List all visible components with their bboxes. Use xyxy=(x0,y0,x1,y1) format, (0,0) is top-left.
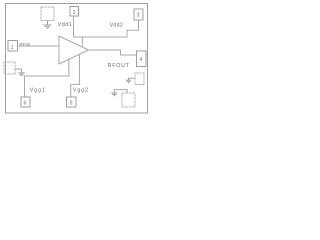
wire Vgg2 (amp bottom to pin5) xyxy=(71,54,80,97)
svg-text:3: 3 xyxy=(137,13,140,19)
capacitor C1 (top-left bypass square) xyxy=(41,7,54,21)
svg-text:5: 5 xyxy=(70,101,73,107)
op-amp U1 (amplifier triangle) xyxy=(59,36,89,64)
ground (left of C4) xyxy=(111,93,117,96)
wire pin2 to Vdd rail xyxy=(73,16,75,37)
svg-text:Vgg1: Vgg1 xyxy=(30,87,46,93)
wire Vgg1 (amp bottom to pin6) xyxy=(25,59,69,97)
pin box 1 xyxy=(8,41,18,52)
wire C3 to ground xyxy=(129,78,136,80)
die outline border xyxy=(6,4,148,114)
capacitor C2 (left-border square) xyxy=(4,62,15,74)
wire RFIN to amp xyxy=(18,45,60,47)
wire Vdd rail (pin3 down, left, down, left to pin2 wire) xyxy=(74,20,139,37)
pin box 3 xyxy=(134,9,143,20)
svg-text:4: 4 xyxy=(140,57,143,63)
ground (left of C3) xyxy=(126,80,132,83)
pin box 2 xyxy=(70,7,79,17)
wire stub rail to amp top edge xyxy=(81,37,83,47)
wire C2 to ground xyxy=(15,69,22,73)
capacitor C4 (bottom-right square) xyxy=(122,93,135,107)
pin box 6 xyxy=(21,97,30,107)
pin box 4 xyxy=(137,51,147,67)
svg-text:6: 6 xyxy=(24,101,27,107)
wire amp output to pin4 xyxy=(89,50,137,55)
wire C4 to ground xyxy=(114,90,127,93)
ground (below C1) xyxy=(43,21,51,29)
svg-text:RFOUT: RFOUT xyxy=(108,63,130,69)
svg-text:Vgg2: Vgg2 xyxy=(73,87,89,93)
svg-text:Vdd1: Vdd1 xyxy=(58,22,73,28)
pin box 5 xyxy=(67,97,77,107)
svg-text:2: 2 xyxy=(73,10,76,16)
ground (right of C2) xyxy=(18,73,24,76)
capacitor C3 (square below pin4) xyxy=(135,73,144,85)
svg-text:Vdd2: Vdd2 xyxy=(110,22,124,28)
svg-text:1: 1 xyxy=(11,45,14,51)
